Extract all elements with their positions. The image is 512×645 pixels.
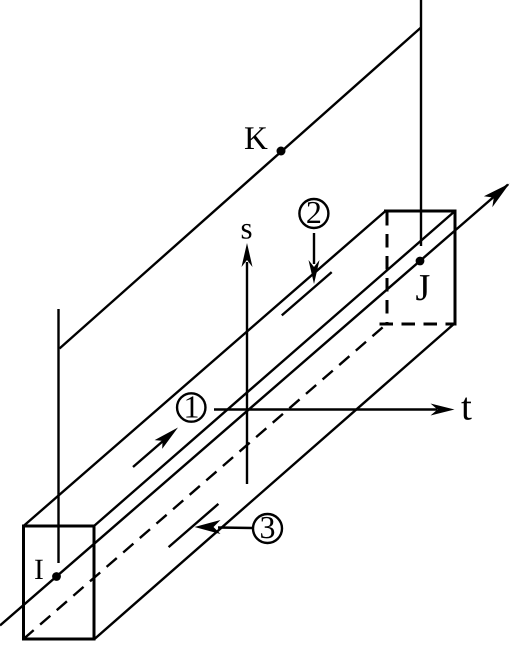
svg-text:K: K [244,121,268,157]
svg-text:3: 3 [260,509,276,545]
svg-text:t: t [461,386,472,429]
svg-text:s: s [241,211,253,246]
svg-text:I: I [34,554,44,586]
svg-text:J: J [416,267,431,309]
svg-text:1: 1 [184,389,200,425]
svg-text:2: 2 [306,194,322,230]
